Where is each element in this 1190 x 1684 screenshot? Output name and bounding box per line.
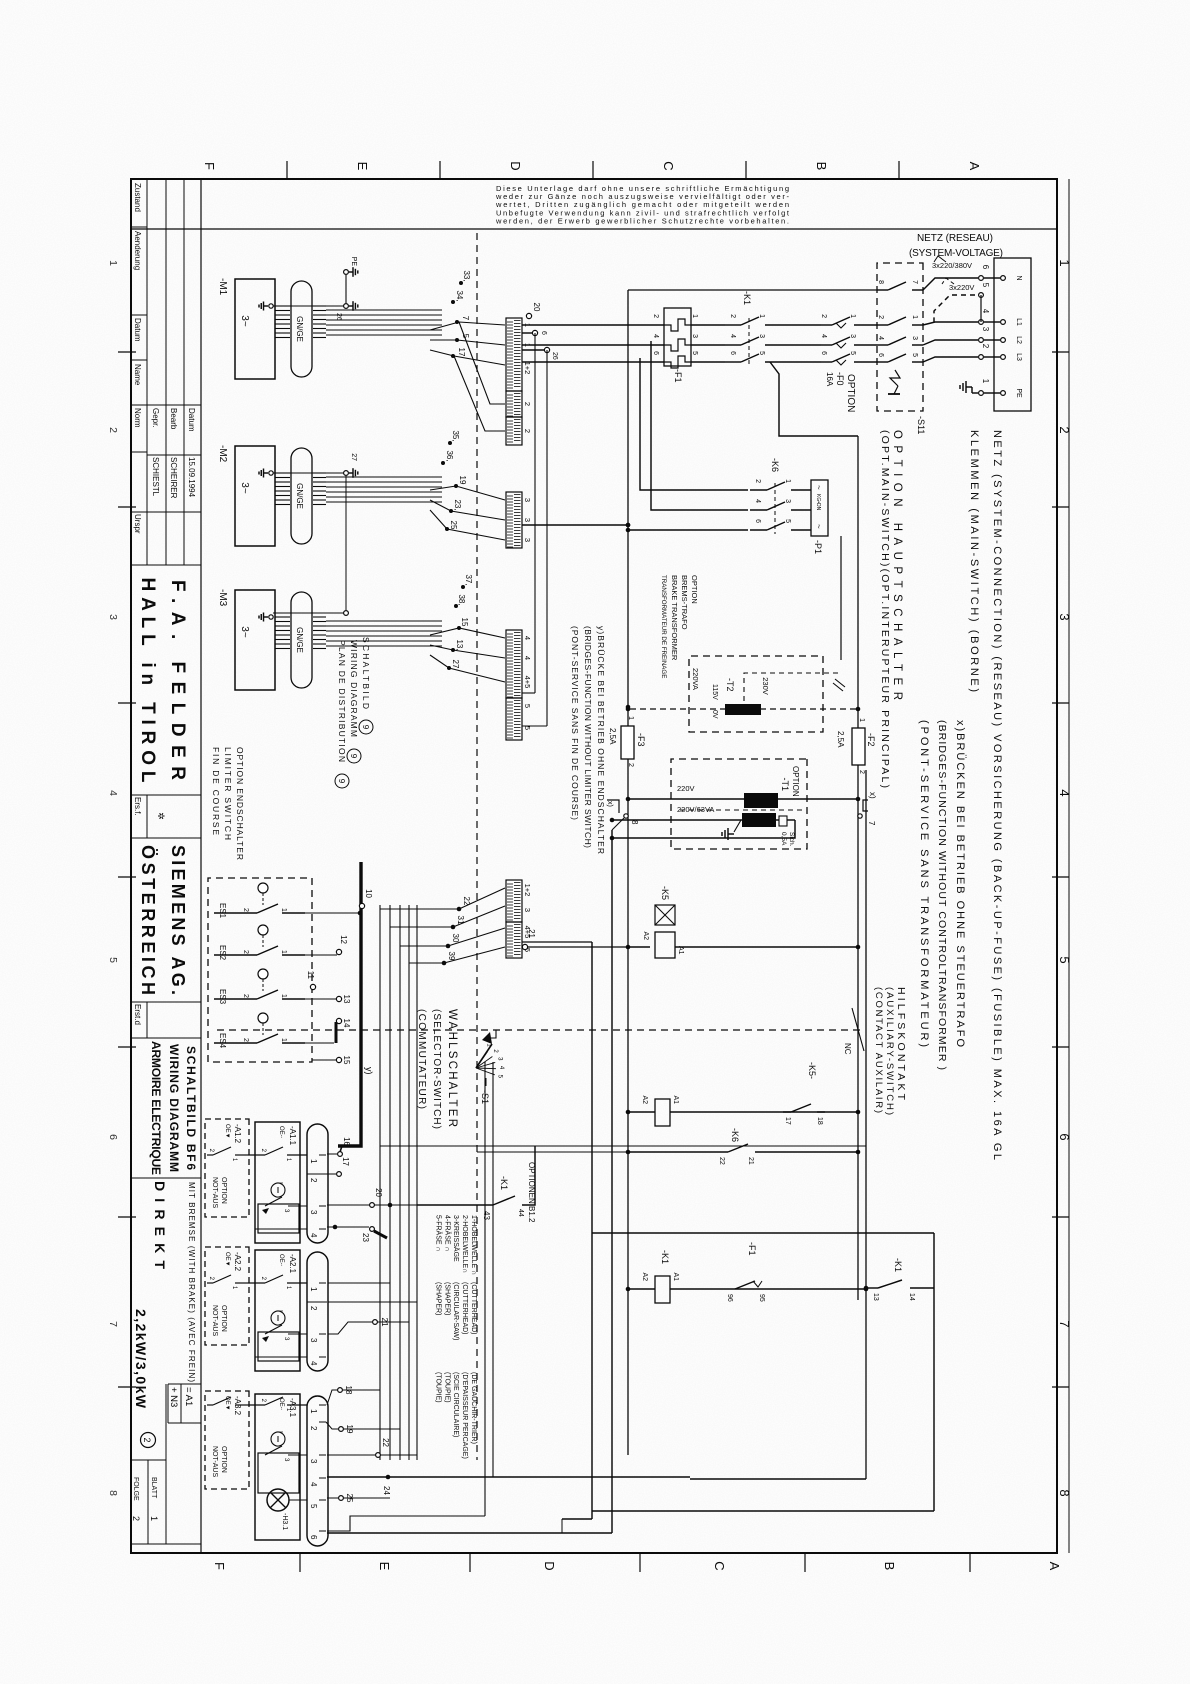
cable hatch below capsule M2 (275, 472, 290, 474)
T1 secondary dashed wire (678, 809, 802, 811)
svg-text:C: C (661, 161, 676, 170)
svg-text:werden, der Erwerb gewerbliche: werden, der Erwerb gewerblicher Schutzre… (495, 216, 789, 225)
svg-text:-K6: -K6 (730, 1128, 740, 1142)
svg-text:220V: 220V (677, 784, 695, 793)
svg-text:30: 30 (451, 934, 460, 943)
rotated landscape drawing group (107, 161, 1072, 1572)
svg-text:-M1: -M1 (217, 278, 228, 296)
svg-text:NETZ (RESEAU): NETZ (RESEAU) (917, 233, 993, 244)
svg-text:-F3: -F3 (636, 733, 646, 747)
svg-text:5: 5 (911, 353, 918, 357)
svg-text:2: 2 (652, 314, 659, 318)
numbered circles on ES risers (336, 949, 341, 954)
motor earth terminal M3 (269, 615, 273, 619)
svg-text:17: 17 (457, 348, 466, 357)
svg-text:4: 4 (309, 1361, 318, 1366)
svg-text:-K5: -K5 (660, 886, 670, 900)
K1 contact 43/44 option (522, 1146, 535, 1205)
terminal strip segment [('4', 638), ('4', 658), ('4+5', 682)] (506, 630, 522, 698)
phase wires S11 to F0 (854, 324, 877, 326)
breaker F0 poles (832, 317, 850, 325)
cable hatch above capsule M1 (313, 305, 326, 307)
svg-text:-K5-: -K5- (807, 1062, 817, 1079)
svg-text:PLAN DE DISTRIBUTION: PLAN DE DISTRIBUTION (337, 640, 347, 762)
svg-text:Name: Name (133, 364, 142, 386)
svg-text:2: 2 (627, 763, 634, 767)
svg-text:5: 5 (1057, 956, 1072, 963)
svg-text:-S1: -S1 (480, 1090, 490, 1104)
limit switch ES1 (282, 912, 305, 914)
svg-text:38,: 38, (457, 594, 466, 605)
wire bracket ring to rail578 (612, 818, 624, 830)
S1 output wires to A3 (492, 1062, 494, 1477)
control feed to strip (522, 524, 628, 526)
terminal strip segment [('1', 325), ('1', 345), ('1+2', 368)] (506, 318, 522, 391)
S11 handle linkage (890, 370, 900, 386)
svg-text:3: 3 (849, 334, 856, 338)
A3 contact 1 (287, 1404, 307, 1406)
svg-text:27: 27 (451, 660, 460, 669)
ring 18 19 22 25 risers (338, 1388, 343, 1393)
svg-text:1: 1 (849, 314, 856, 318)
ring 17 (337, 1172, 342, 1177)
svg-text:E: E (355, 162, 370, 171)
K1 linkage dashed (748, 318, 750, 366)
svg-text:WAHLSCHALTER: WAHLSCHALTER (446, 1009, 458, 1127)
svg-text:2: 2 (242, 994, 249, 998)
title block vertical dividers (131, 564, 201, 566)
svg-text:GN/GE: GN/GE (295, 627, 304, 653)
selector switch S1 symbol (482, 1032, 492, 1044)
svg-text:1: 1 (280, 994, 287, 998)
svg-text:OPTION ENDSCHALTER: OPTION ENDSCHALTER (235, 747, 245, 860)
svg-text:ES1: ES1 (218, 903, 227, 919)
svg-text:L1: L1 (1015, 318, 1022, 326)
brake transformer T2 dashed box (689, 656, 823, 732)
svg-text:A: A (1047, 1562, 1062, 1571)
control rail y562 (627, 290, 629, 1455)
svg-text:1: 1 (981, 379, 990, 384)
svg-text:19: 19 (458, 476, 467, 485)
svg-text:8: 8 (630, 820, 639, 825)
svg-text:3: 3 (309, 1338, 318, 1343)
svg-text:2: 2 (309, 1306, 318, 1311)
svg-text:E: E (377, 1562, 392, 1571)
svg-text:TRANSFORMATEUR DE FREINAGE: TRANSFORMATEUR DE FREINAGE (660, 575, 667, 678)
motor earth terminal M1 (269, 304, 273, 308)
svg-text:2-HOBELWELLE∩: 2-HOBELWELLE∩ (461, 1215, 468, 1273)
svg-text:A2: A2 (642, 931, 649, 940)
svg-text:3: 3 (784, 499, 791, 503)
circle 20 at strip (526, 313, 531, 318)
K6 coil branch (670, 1111, 858, 1113)
inner estop box -A2.1 (258, 1332, 299, 1361)
svg-text:2: 2 (242, 950, 249, 954)
dashed jog at S1 (486, 1030, 496, 1038)
ring 23 riser (370, 1227, 375, 1232)
svg-text:3: 3 (309, 1210, 318, 1215)
svg-text:BRAKE TRANSFORMER: BRAKE TRANSFORMER (670, 575, 679, 661)
svg-text:-T1: -T1 (780, 778, 790, 792)
brake feed wires from phases to K6 (651, 341, 748, 510)
svg-text:2: 2 (142, 1437, 152, 1442)
svg-text:8: 8 (107, 1490, 119, 1496)
emergency stop box -A1.1 (255, 1122, 300, 1243)
K6 brake contacts (767, 482, 785, 490)
svg-text:OPTION: OPTION (690, 575, 699, 604)
svg-text:OPTION: OPTION (845, 374, 856, 412)
bundle left risers to numbered dots (380, 908, 459, 910)
svg-text:FOLGE: FOLGE (132, 1477, 139, 1501)
svg-text:3x220/380V: 3x220/380V (932, 261, 972, 270)
svg-text:44: 44 (517, 1209, 524, 1217)
svg-text:y): y) (364, 1067, 374, 1075)
M1 PE tie (344, 270, 349, 275)
svg-text:HILFSKONTAKT: HILFSKONTAKT (895, 987, 907, 1101)
wires F0 to K1 (765, 324, 821, 326)
svg-text:3: 3 (523, 498, 532, 502)
svg-text:ES2: ES2 (218, 945, 227, 961)
contact 1 in -A1.1 (287, 1154, 307, 1156)
rail y324 (865, 770, 867, 1479)
svg-text:✲: ✲ (156, 812, 166, 820)
svg-text:3: 3 (981, 327, 990, 332)
svg-text:7: 7 (461, 316, 470, 321)
svg-text:3: 3 (523, 518, 532, 522)
rail 598 riser (562, 1518, 592, 1520)
terminal capsule -A1.1 (307, 1124, 328, 1243)
motor earth terminal M2 (269, 471, 273, 475)
svg-text:96: 96 (726, 1294, 733, 1302)
option loop wires right (592, 1232, 934, 1234)
svg-text:8: 8 (1057, 1489, 1072, 1496)
svg-text:6: 6 (652, 351, 659, 355)
zone ticks left margin (898, 161, 900, 179)
svg-text:1: 1 (784, 479, 791, 483)
contact in -A1.2 (235, 1154, 248, 1156)
K5 coil (655, 932, 675, 958)
svg-text:A2: A2 (641, 1272, 648, 1281)
svg-text:5: 5 (691, 351, 698, 355)
svg-text:x): x) (606, 801, 613, 807)
svg-text:3-KREISSÄGE: 3-KREISSÄGE (452, 1215, 460, 1262)
svg-text:1: 1 (627, 716, 634, 720)
K5 branch (675, 946, 858, 948)
K1 aux contact 13/14 right (910, 1287, 934, 1289)
circle 26 wire (544, 347, 549, 352)
svg-text:(CONTACT AUXILAIR): (CONTACT AUXILAIR) (873, 987, 884, 1113)
svg-text:OPTION: OPTION (791, 766, 800, 797)
rail598 feed to selector strip (522, 941, 592, 943)
svg-text:FIN DE COURSE: FIN DE COURSE (211, 747, 221, 835)
T1 secondary wires (776, 819, 779, 821)
svg-text:2: 2 (820, 314, 827, 318)
svg-text:OE▼: OE▼ (224, 1124, 230, 1139)
svg-text:-A3.2: -A3.2 (233, 1396, 242, 1416)
svg-text:D: D (508, 161, 523, 170)
rail y598 control secondary 2 (591, 942, 593, 1519)
svg-text:SCHIESTL: SCHIESTL (151, 457, 160, 497)
T2 230V dashed tap (744, 673, 838, 702)
bridge x) on L rail (863, 800, 868, 811)
A3 option dashed box (205, 1391, 249, 1489)
option dashed box -A1.2 (205, 1119, 249, 1217)
circle 21 at selector strip - K5 branch to strip (526, 946, 628, 948)
T1 secondary winding bar (742, 813, 776, 827)
svg-text:(BRIDGES-FUNCTION WITHOUT LIMI: (BRIDGES-FUNCTION WITHOUT LIMITER SWITCH… (583, 626, 593, 848)
svg-text:+ N3: + N3 (168, 1387, 179, 1407)
control rail tap from L3 (770, 362, 858, 436)
wire 6 horizontal (534, 333, 536, 693)
circled 2 (141, 1433, 156, 1448)
svg-text:SCHALTBILD: SCHALTBILD (361, 637, 371, 709)
svg-text:y)BRÜCKE BEI BETRIEB OHNE ENDS: y)BRÜCKE BEI BETRIEB OHNE ENDSCHALTER (596, 626, 606, 854)
svg-text:ES3: ES3 (218, 989, 227, 1005)
svg-text:~: ~ (814, 485, 823, 490)
title block strip rows (200, 179, 202, 1553)
svg-text:26: 26 (551, 352, 558, 360)
svg-text:(PONT-SERVICE SANS FIN DE COUR: (PONT-SERVICE SANS FIN DE COURSE) (570, 626, 580, 820)
svg-text:6: 6 (877, 353, 884, 357)
svg-text:1: 1 (149, 1516, 159, 1521)
svg-text:4: 4 (652, 334, 659, 338)
svg-text:17: 17 (784, 1117, 791, 1125)
svg-text:2,5A: 2,5A (608, 728, 617, 745)
svg-text:15: 15 (460, 618, 469, 627)
svg-text:-P1: -P1 (813, 540, 823, 554)
svg-text:2: 2 (131, 1516, 141, 1521)
svg-text:Datum: Datum (133, 318, 142, 342)
svg-text:2: 2 (858, 770, 865, 774)
svg-text:WIRING DIAGRAMM: WIRING DIAGRAMM (167, 1044, 181, 1172)
terminal strip segment [('3', 500), ('3', 520), ('3', 540)] (506, 492, 522, 548)
svg-text:ÖSTERREICH: ÖSTERREICH (138, 845, 158, 995)
estop contact -A2.1 (288, 1333, 307, 1335)
rail y578 control secondary (611, 830, 613, 1533)
svg-text:14: 14 (908, 1293, 915, 1301)
svg-text:F: F (212, 1562, 227, 1570)
svg-text:Zustand: Zustand (133, 183, 142, 212)
svg-text:22: 22 (381, 1438, 390, 1447)
terminal strip segment [('2', 404)] (506, 391, 522, 417)
ring 16 thick link (340, 1146, 342, 1152)
svg-text:4: 4 (1057, 789, 1072, 796)
svg-text:25: 25 (449, 521, 458, 530)
svg-text:4: 4 (877, 336, 884, 340)
terminal circles in box (1001, 276, 1006, 281)
svg-text:L2: L2 (1015, 336, 1022, 344)
GN/GE capsule M3 (291, 592, 312, 688)
svg-text:4: 4 (309, 1482, 318, 1487)
svg-text:LIMITER SWITCH: LIMITER SWITCH (223, 747, 233, 840)
lower plug circles (979, 276, 984, 281)
rail 324 riser to capsule (690, 1478, 866, 1480)
through wires -A1.1 (307, 1173, 327, 1175)
outer trim line top (1068, 179, 1070, 1553)
A3 emergency stop box (255, 1394, 300, 1540)
contact in -A2.2 (235, 1282, 248, 1284)
svg-text:Erst.d: Erst.d (133, 1004, 142, 1025)
svg-text:6: 6 (729, 351, 736, 355)
option dashed box -A2.2 (205, 1247, 249, 1345)
zone ticks top/bottom margins (1052, 351, 1069, 353)
svg-text:10: 10 (364, 889, 373, 898)
svg-text:SCHEIRER: SCHEIRER (169, 457, 178, 499)
terminal capsule -A2.1 (307, 1252, 328, 1371)
svg-text:1: 1 (280, 950, 287, 954)
svg-text:PE: PE (1015, 388, 1022, 398)
svg-text:3: 3 (309, 1459, 318, 1464)
svg-text:7: 7 (1057, 1320, 1072, 1327)
M2 PE tie (344, 471, 349, 476)
A3 group capsule (307, 1396, 328, 1546)
motor M1 (235, 279, 275, 379)
svg-text:6: 6 (820, 351, 827, 355)
wire bundle 5 lines (416, 905, 418, 1460)
svg-text:5: 5 (981, 283, 990, 288)
sheet border frame (131, 179, 1057, 1553)
PE link wire M2 to M3 (345, 476, 347, 610)
svg-text:220VA: 220VA (691, 668, 700, 690)
estop contact -A1.1 (288, 1205, 307, 1207)
svg-text:1: 1 (1057, 259, 1072, 266)
svg-text:(PONT-SERVICE SANS TRANSFORMAT: (PONT-SERVICE SANS TRANSFORMATEUR) (918, 720, 930, 1047)
M2 crossing wires (430, 486, 505, 500)
svg-text:21: 21 (527, 929, 536, 938)
svg-text:(SHAPER): (SHAPER) (443, 1282, 450, 1315)
terminal strip segment [('5', 706), ('5', 728)] (506, 698, 522, 740)
svg-text:5: 5 (758, 351, 765, 355)
svg-text:(DE GAUCHIR-TRIER): (DE GAUCHIR-TRIER) (470, 1372, 477, 1444)
svg-text:3: 3 (523, 908, 532, 912)
S11 pole 3/4 (912, 344, 923, 346)
inner estop box -A1.1 (258, 1204, 299, 1233)
svg-text:-F2: -F2 (866, 733, 876, 747)
rail 578 riser (327, 1532, 612, 1534)
svg-text:1: 1 (309, 1287, 318, 1292)
sub-table Datum/Bearb/Gepr lines (147, 404, 201, 406)
svg-text:(TOUPIE): (TOUPIE) (434, 1372, 441, 1403)
svg-text:5: 5 (849, 351, 856, 355)
T1 earth (734, 820, 741, 832)
svg-text:0,5A: 0,5A (780, 832, 787, 846)
contact 1 in -A2.1 (287, 1282, 307, 1284)
svg-text:-F1: -F1 (673, 369, 683, 383)
S11 pole 5/6 (912, 361, 923, 363)
M3 PE tie (344, 611, 349, 616)
svg-text:39: 39 (447, 952, 456, 961)
svg-text:F: F (202, 162, 217, 170)
svg-text:-M3: -M3 (217, 589, 228, 607)
svg-text:2: 2 (242, 1038, 249, 1042)
contactor K1 main contacts (741, 317, 759, 325)
limit switch ES4 (282, 1042, 305, 1044)
svg-text:17: 17 (341, 1157, 350, 1166)
svg-text:9: 9 (361, 725, 370, 730)
svg-text:-A2.1: -A2.1 (288, 1254, 297, 1274)
svg-text:OPTION: OPTION (220, 1305, 227, 1332)
ES risers (305, 912, 359, 914)
svg-text:18: 18 (816, 1117, 823, 1125)
A3 estop contact (258, 1453, 299, 1493)
svg-text:= A1: = A1 (183, 1387, 194, 1406)
motor M2 (235, 446, 275, 546)
svg-text:15.09.1994: 15.09.1994 (187, 457, 196, 498)
L1 L2 L3 drops to S11 (923, 322, 978, 325)
svg-text:-K1: -K1 (499, 1176, 509, 1190)
zone ticks right margin (969, 1553, 971, 1572)
svg-text:(SYSTEM-VOLTAGE): (SYSTEM-VOLTAGE) (909, 248, 1003, 259)
svg-text:6: 6 (540, 331, 547, 335)
svg-text:-K6: -K6 (770, 458, 780, 472)
svg-text:4: 4 (981, 309, 990, 314)
svg-text:2: 2 (107, 427, 119, 433)
mains terminal box X0 (994, 258, 1031, 411)
svg-text:4: 4 (523, 656, 532, 660)
mechanical dashed line horizontal (476, 233, 478, 1460)
svg-text:-A2.2: -A2.2 (233, 1252, 242, 1272)
svg-text:2: 2 (309, 1426, 318, 1431)
cable hatch above capsule M3 (313, 616, 326, 618)
svg-text:2: 2 (242, 908, 249, 912)
svg-text:2: 2 (523, 402, 532, 406)
svg-text:7: 7 (867, 821, 876, 826)
svg-text:Gepr.: Gepr. (151, 408, 160, 428)
A2 capsule risers (328, 1282, 390, 1284)
svg-text:(COMMUTATEUR): (COMMUTATEUR) (416, 1009, 427, 1109)
svg-text:NC: NC (843, 1043, 852, 1055)
wires K1 to F1 (691, 324, 725, 326)
svg-text:-S11: -S11 (916, 416, 926, 434)
svg-text:ARMOIRE ELECTRIQUE: ARMOIRE ELECTRIQUE (149, 1041, 163, 1175)
svg-text:6: 6 (107, 1134, 119, 1140)
svg-text:B: B (882, 1562, 897, 1571)
svg-text:NOT-AUS: NOT-AUS (211, 1305, 218, 1336)
svg-text:A2: A2 (641, 1095, 648, 1104)
M3 crossing wires (430, 628, 505, 638)
M1 crossing wires (430, 322, 505, 330)
svg-text:2: 2 (981, 344, 990, 349)
svg-text:5: 5 (107, 957, 119, 963)
svg-text:4: 4 (820, 334, 827, 338)
svg-text:22: 22 (718, 1157, 725, 1165)
svg-text:1+2: 1+2 (523, 884, 532, 897)
svg-text:Datum: Datum (187, 408, 196, 432)
svg-text:-F0: -F0 (835, 372, 845, 386)
svg-text:1: 1 (911, 315, 918, 319)
svg-text:1: 1 (280, 1038, 287, 1042)
svg-text:-M2: -M2 (217, 445, 228, 463)
svg-text:NOT-AUS: NOT-AUS (211, 1446, 218, 1477)
svg-text:HALL in TIROL: HALL in TIROL (137, 578, 158, 783)
svg-text:A1: A1 (677, 946, 684, 955)
svg-text:4-FRÄSE ∩: 4-FRÄSE ∩ (443, 1215, 451, 1252)
svg-text:Urspr: Urspr (133, 514, 142, 534)
GN/GE capsule M2 (291, 448, 312, 544)
svg-text:1: 1 (309, 1159, 318, 1164)
thick option bridge wire y) (338, 862, 361, 1146)
svg-text:GN/GE: GN/GE (295, 483, 304, 509)
svg-text:A1: A1 (672, 1272, 679, 1281)
svg-text:8: 8 (877, 280, 884, 284)
K1 coil (655, 1276, 670, 1303)
svg-text:D: D (542, 1561, 557, 1570)
T2 option dashed riser (628, 708, 856, 710)
svg-text:~: ~ (814, 524, 823, 529)
svg-text:BREMS-TRAFO: BREMS-TRAFO (680, 575, 689, 630)
svg-text:3: 3 (758, 334, 765, 338)
ring 21 riser (373, 1320, 378, 1325)
